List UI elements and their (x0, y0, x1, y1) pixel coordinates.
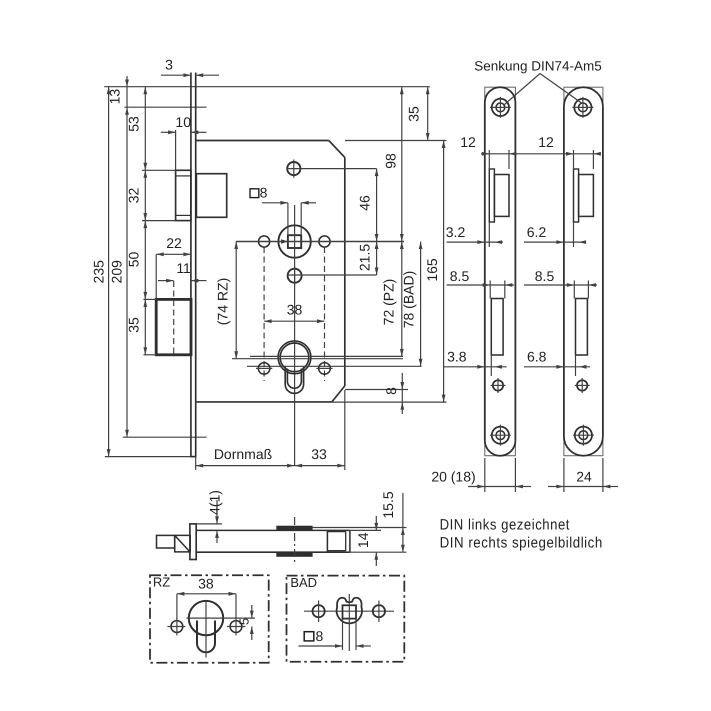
dim text 72PZ (381, 279, 397, 326)
screw hole top line right (288, 168, 377, 170)
RZ fixing hole left (167, 618, 185, 636)
fixing hole right lower (319, 363, 331, 375)
right plate plate top arc (564, 87, 603, 107)
case bottom chamfer (332, 386, 345, 402)
fixing hole right lower tick (316, 367, 332, 369)
case right edge (344, 157, 346, 386)
leader line right (540, 74, 582, 104)
dim 235 arrow top (107, 87, 111, 95)
dim 3.2 line (447, 241, 503, 243)
dim 3.8 line (443, 366, 507, 368)
dim sq8 square symbol (250, 189, 259, 198)
dim 32 arrow bottom (143, 213, 147, 221)
dim text 8.5 left (450, 268, 470, 284)
latch tail inner top (327, 531, 345, 533)
ext line case top right (345, 140, 447, 142)
RZ dim 5 arrow top (250, 611, 254, 619)
svg-text:98: 98 (383, 153, 399, 169)
svg-text:35: 35 (405, 106, 421, 122)
screw hole lower line right (287, 274, 377, 276)
left plate thin square-end outline (485, 87, 516, 456)
dim 165 arrow bottom (442, 395, 446, 403)
cylinder stem inner (287, 369, 301, 389)
dim 78BAD arrow bottom (419, 359, 423, 367)
dim 35 arrow bottom (143, 347, 147, 355)
dim 72PZ arrow top (400, 242, 404, 250)
dim text 8 follower (260, 184, 268, 200)
svg-text:78 (BAD): 78 (BAD) (401, 271, 417, 329)
left plate countersunk screw bottom (490, 425, 511, 446)
dim 8.5 left arrow b (505, 283, 513, 287)
dim text 235 (90, 260, 106, 284)
BAD dim line left (299, 645, 343, 647)
deadbolt box (156, 299, 191, 354)
svg-text:38: 38 (198, 575, 214, 591)
RZ dim 5 arrow bottom (250, 627, 254, 635)
dim 8 arrow bottom tail (401, 402, 403, 414)
dim 4 line (216, 500, 218, 524)
left plate deadbolt cutout (491, 299, 503, 356)
dim 8.5 right ext a (573, 281, 575, 299)
dim 15.5 arrow top (401, 528, 405, 536)
RZ cylinder circle (189, 601, 223, 635)
ext line case edge down (344, 390, 346, 470)
svg-text:53: 53 (126, 116, 142, 132)
extension line top edge y=86.7 (104, 86, 430, 88)
follower horizontal centerline (236, 241, 404, 243)
RZ label (153, 574, 170, 589)
dim 15.5 ext top (312, 527, 407, 529)
screw hole lower cross v (294, 266, 296, 285)
follower sq dim arrow at square (281, 239, 288, 243)
dim 8.5 left line (447, 284, 514, 286)
cylinder outer circle RZ (278, 341, 311, 374)
dim 8.5 left ext b (504, 281, 506, 299)
dim text 46 (357, 195, 373, 211)
dim 4 ext line plate top (196, 523, 222, 525)
BAD h centerline (304, 610, 394, 612)
svg-text:Senkung DIN74-Am5: Senkung DIN74-Am5 (474, 59, 602, 74)
BAD sq8 symbol (304, 632, 314, 641)
svg-text:13: 13 (107, 89, 123, 105)
label Senkung DIN74-Am5 (474, 59, 602, 74)
svg-text:8.5: 8.5 (450, 268, 470, 284)
dim text 24 (576, 469, 592, 485)
right plate plate bottom arc (564, 436, 603, 456)
svg-text:DIN rechts spiegelbildlich: DIN rechts spiegelbildlich (440, 535, 603, 552)
BAD dim line right (356, 645, 371, 647)
case top edge (196, 140, 329, 142)
dim 35tr arrow bottom (426, 133, 430, 141)
dim 33 arrow mid right (287, 464, 295, 468)
fixing hole left lower tick (256, 367, 272, 369)
svg-text:4(1): 4(1) (207, 490, 223, 515)
dim 4 arrow top (215, 516, 219, 524)
dim 14 arrow bottom (374, 552, 378, 560)
dim text 35 left (126, 317, 142, 333)
main vertical centerline (294, 205, 296, 466)
ext line case bottom right (332, 401, 447, 403)
fixing hole left lower (258, 363, 270, 375)
svg-text:8: 8 (383, 387, 399, 395)
BAD fixing hole left (313, 601, 325, 623)
dim text Dornmass (214, 446, 272, 462)
dim text 12 left (460, 134, 476, 150)
dim 32 arrow top (143, 170, 147, 178)
svg-text:32: 32 (126, 188, 142, 204)
dim 10 arrow right (168, 130, 176, 134)
faceplate left edge (190, 73, 192, 457)
BAD dim ext left (342, 619, 344, 650)
dim 12 ext c (573, 150, 575, 169)
RZ dim text 38 (198, 575, 214, 591)
leader line left (505, 74, 541, 105)
dim 53 arrow bottom (143, 163, 147, 171)
latch top extension (142, 169, 176, 171)
dim text 20 (18) (431, 469, 475, 485)
left plate plate right edge (514, 103, 516, 441)
dim text 33 (311, 446, 327, 462)
dim 10 arrow left (191, 130, 199, 134)
dim 8.5 right arrow a (567, 283, 575, 287)
RZ dim 38 arrow right (229, 592, 237, 596)
BAD dim ext right (355, 619, 357, 650)
left plate plate left edge (484, 103, 486, 441)
dim 235 line (108, 87, 110, 457)
dim 6.8 arrow b (579, 365, 587, 369)
dim 8.5 right line (524, 284, 597, 286)
dim 8 ext line y=389.5 (345, 389, 408, 391)
dim 4 arrow bottom tail (216, 530, 218, 543)
dim Dornmass arrow left (196, 464, 204, 468)
fixing hole right upper (319, 236, 330, 247)
dim text 3.2 (446, 224, 466, 240)
dim 50 arrow bottom (143, 292, 147, 300)
dim 50 arrow top (143, 221, 147, 229)
svg-text:BAD: BAD (290, 575, 317, 590)
svg-text:8.5: 8.5 (535, 268, 555, 284)
note DIN links (440, 517, 571, 534)
dim text 209 (108, 260, 124, 284)
latch head side outline (175, 535, 191, 552)
right plate countersunk screw bottom (573, 425, 594, 446)
svg-text:21.5: 21.5 (357, 244, 373, 271)
dim 46 arrow bottom (375, 234, 379, 242)
dim 72PZ arrow bottom (400, 349, 404, 357)
deadbolt centerline dashed (173, 281, 175, 354)
dim col 46-21.5 line (376, 169, 378, 275)
BAD fixing hole right (373, 601, 385, 623)
RZ dim 38 arrow left (177, 592, 185, 596)
dim sq8 left tail (262, 202, 288, 204)
dim 10 left tail (161, 131, 176, 133)
faceplate bottom cap (190, 456, 196, 458)
dim 20 arrow b (515, 485, 523, 489)
dim 209 arrow bottom (125, 430, 129, 438)
left plate latch lip (489, 169, 494, 222)
dim text 74RZ (215, 278, 231, 325)
svg-text:38: 38 (287, 302, 303, 318)
dim 15.5 arrow bottom (401, 545, 405, 553)
follower square ext line left (287, 203, 289, 235)
RZ dim 38 line (177, 593, 236, 595)
dim 6.8 line (524, 366, 590, 368)
dim 74RZ arrow top (234, 242, 238, 250)
dim text 98 (383, 153, 399, 169)
dim 11 right tail (191, 280, 207, 282)
RZ dim text 5 (237, 618, 252, 625)
right plate plate right edge (602, 107, 604, 437)
dim 53 arrow top (143, 87, 147, 95)
dim text 35 top right (405, 106, 421, 122)
left plate screw hole (491, 378, 506, 393)
dim 14 ext top (350, 529, 381, 531)
dim text 10 (175, 114, 191, 130)
svg-text:33: 33 (311, 446, 327, 462)
dim text 22 (166, 235, 182, 251)
RZ v centerline (205, 601, 207, 658)
dim 165 line (443, 141, 445, 403)
note DIN rechts (440, 535, 603, 552)
svg-text:8: 8 (260, 184, 268, 200)
left plate plate top arc (485, 87, 516, 102)
latch head box (176, 170, 191, 220)
dim 3 arrow right (183, 73, 191, 77)
dim text 4(1) (207, 490, 223, 515)
latch head chamfer line top (176, 175, 191, 177)
dim text 11 (176, 260, 191, 276)
follower square ext line right (300, 203, 302, 235)
dim 6.2 line (524, 241, 585, 243)
dim 6.8 arrow a (556, 365, 564, 369)
spring box bottom bar (277, 552, 312, 556)
dim 235 arrow bottom (107, 449, 111, 457)
dim text 165 (424, 258, 440, 282)
dim 35 arrow top (143, 299, 147, 307)
RZ cylinder stem (197, 621, 215, 653)
dim 6.2 ext (573, 222, 575, 247)
dim 3.8 arrow a (477, 365, 485, 369)
svg-text:14: 14 (355, 532, 371, 548)
screw hole top circle (287, 162, 300, 175)
dim 14 arrow top (374, 523, 378, 531)
svg-text:12: 12 (460, 134, 476, 150)
dim text 15.5 (380, 491, 396, 518)
dim col 98-72 line (401, 87, 403, 357)
dim 78BAD line (420, 242, 422, 367)
dim 21.5 arrow bottom (375, 268, 379, 276)
BAD dim arrow right (356, 644, 364, 648)
dim 11 arrow right (166, 279, 174, 283)
case bottom edge (196, 401, 332, 403)
svg-text:20 (18): 20 (18) (431, 469, 475, 485)
svg-text:12: 12 (538, 134, 554, 150)
dim 14 arrow bottom tail (375, 552, 377, 566)
dim 165 arrow top (442, 141, 446, 149)
dim text 78BAD (401, 271, 417, 329)
RZ fixing hole right (227, 618, 246, 636)
dim 13-209 line (126, 76, 128, 437)
svg-text:35: 35 (126, 317, 142, 333)
dashed centerline left (263, 247, 265, 381)
dim 8 line (401, 373, 403, 402)
latch front extension line up (175, 130, 177, 170)
dim 46 arrow top (375, 169, 379, 177)
svg-text:209: 209 (108, 260, 124, 284)
dim 3.2 arrow a (477, 240, 485, 244)
screw hole top cross v (293, 160, 295, 178)
dim 21.5 arrow top (375, 242, 379, 250)
RZ ext right (235, 594, 237, 619)
svg-text:6.2: 6.2 (527, 224, 547, 240)
dim 8.5 right ext b (587, 281, 589, 299)
dim 24 line right tail (603, 486, 618, 488)
dim 24 line left tail (548, 486, 564, 488)
dim Dornmass line (196, 465, 345, 467)
dim 20 ext a (484, 458, 486, 492)
dim text 21.5 (357, 244, 373, 271)
dim 98 arrow top (400, 87, 404, 95)
dim 38 line (264, 320, 324, 322)
right plate countersunk screw top (572, 97, 593, 118)
latch head bevel diagonal (175, 535, 190, 551)
dim text 32 (126, 188, 142, 204)
latch bottom extension (142, 220, 176, 222)
dim Dornmass arrow mid left (295, 464, 303, 468)
right plate latch box (579, 175, 594, 217)
RZ dim 5 arrow top tail (251, 605, 253, 618)
fixing hole left upper (259, 236, 270, 247)
dim 20 line mid (485, 486, 516, 488)
dim 6.2 arrow b (579, 240, 587, 244)
dim 8.5 right arrow b (588, 283, 596, 287)
svg-text:50: 50 (126, 252, 142, 268)
svg-text:DIN links gezeichnet: DIN links gezeichnet (440, 517, 571, 534)
dim 6.2 arrow a (556, 240, 564, 244)
dim 13 arrow outside top (125, 80, 129, 88)
dim 12 arrows left plate (482, 152, 517, 156)
dim 3.2 arrow b (494, 240, 502, 244)
latch tail inner bottom (327, 550, 345, 552)
dim text 6.2 (527, 224, 547, 240)
PZ center line (250, 355, 403, 357)
dim 24 arrow a (556, 485, 564, 489)
dim 3 line right tail (196, 74, 219, 76)
dim 24 ext b (602, 458, 604, 492)
faceplate cross-section bar (190, 524, 196, 560)
right plate latch lip (574, 169, 579, 222)
follower square (288, 235, 301, 248)
dim 74RZ line (235, 242, 237, 359)
dim 20 line left tail (468, 486, 485, 488)
dim text 12 right (538, 134, 554, 150)
RZ center line (232, 358, 403, 360)
dim text 3 (165, 57, 173, 73)
dim 6.8 ext (575, 355, 577, 376)
latch body divider (326, 530, 328, 552)
dim 8.5 left ext a (489, 281, 491, 299)
dim 13 arrow outside bottom (125, 107, 129, 115)
svg-text:3: 3 (165, 57, 173, 73)
svg-text:3.8: 3.8 (447, 349, 467, 365)
dim 24 arrow b (603, 485, 611, 489)
dim text 38 main (287, 302, 303, 318)
dim text 13 (107, 89, 123, 105)
RZ dim 5 arrow bottom tail (251, 627, 253, 641)
dim 38 arrow right (317, 319, 325, 323)
dim text 53 (126, 116, 142, 132)
deadbolt bottom extension (143, 354, 156, 356)
dim 10 right tail (191, 131, 207, 133)
dim text 14 (355, 532, 371, 548)
dim 11 arrow left (191, 279, 199, 283)
dim text 6.8 (527, 349, 547, 365)
dim 8 arrow bottom (400, 402, 404, 410)
dim 15.5 line (402, 493, 404, 552)
dim 8.5 left arrow a (483, 283, 491, 287)
latch case-side box (196, 174, 226, 218)
dim 14 arrow top tail (375, 516, 377, 530)
dim 20 line right tail (515, 486, 531, 488)
dim 12 ext d (592, 150, 594, 169)
dim 35tr line (427, 87, 429, 141)
cylinder stem outer (285, 367, 303, 394)
BAD center line (247, 365, 422, 367)
dim 11 left tail (158, 280, 174, 282)
dim 3 arrow left (196, 73, 204, 77)
svg-text:72 (PZ): 72 (PZ) (381, 279, 397, 326)
svg-text:Dornmaß: Dornmaß (214, 446, 272, 462)
cylinder inner circle PZ (280, 343, 309, 372)
dim 98 arrow bottom (400, 234, 404, 242)
dim 3 line left tail (161, 74, 191, 76)
dim 24 ext a (563, 458, 565, 492)
BAD box border (287, 576, 405, 662)
right plate deadbolt cutout (576, 299, 588, 356)
svg-text:3.2: 3.2 (446, 224, 466, 240)
left plate latch box (494, 175, 509, 217)
dim 38 arrow left (264, 319, 272, 323)
dim 8 arrow top (400, 382, 404, 390)
BAD follower square (343, 605, 357, 618)
dim 24 line mid (564, 486, 603, 488)
BAD follower v centerline (348, 594, 350, 651)
dim 20 ext b (514, 458, 516, 492)
dim 20 arrow a (477, 485, 485, 489)
dim 15.5 ext bottom (350, 551, 407, 553)
dim 4 arrow bottom (215, 530, 219, 538)
spring box top bar (277, 526, 312, 530)
side view centerline (294, 517, 296, 563)
svg-text:6.8: 6.8 (527, 349, 547, 365)
dim text 8 case (383, 387, 399, 395)
dim 3.2 ext (488, 222, 490, 247)
dim 12 line (481, 153, 598, 155)
BAD label (290, 575, 317, 590)
BAD sq8 text (316, 628, 324, 644)
extension line screw-axis bottom y=437.2 (123, 436, 207, 438)
dim sq8 arrow left (301, 201, 309, 205)
dim 74RZ arrow bottom (234, 351, 238, 359)
svg-text:46: 46 (357, 195, 373, 211)
svg-text:24: 24 (576, 469, 592, 485)
dim sq8 right tail (301, 202, 316, 204)
dim 22 arrow right (183, 252, 191, 256)
svg-text:235: 235 (90, 260, 106, 284)
ext line plate down (195, 457, 197, 470)
left plate countersunk screw top (490, 97, 511, 118)
dim 33 arrow right (337, 464, 345, 468)
